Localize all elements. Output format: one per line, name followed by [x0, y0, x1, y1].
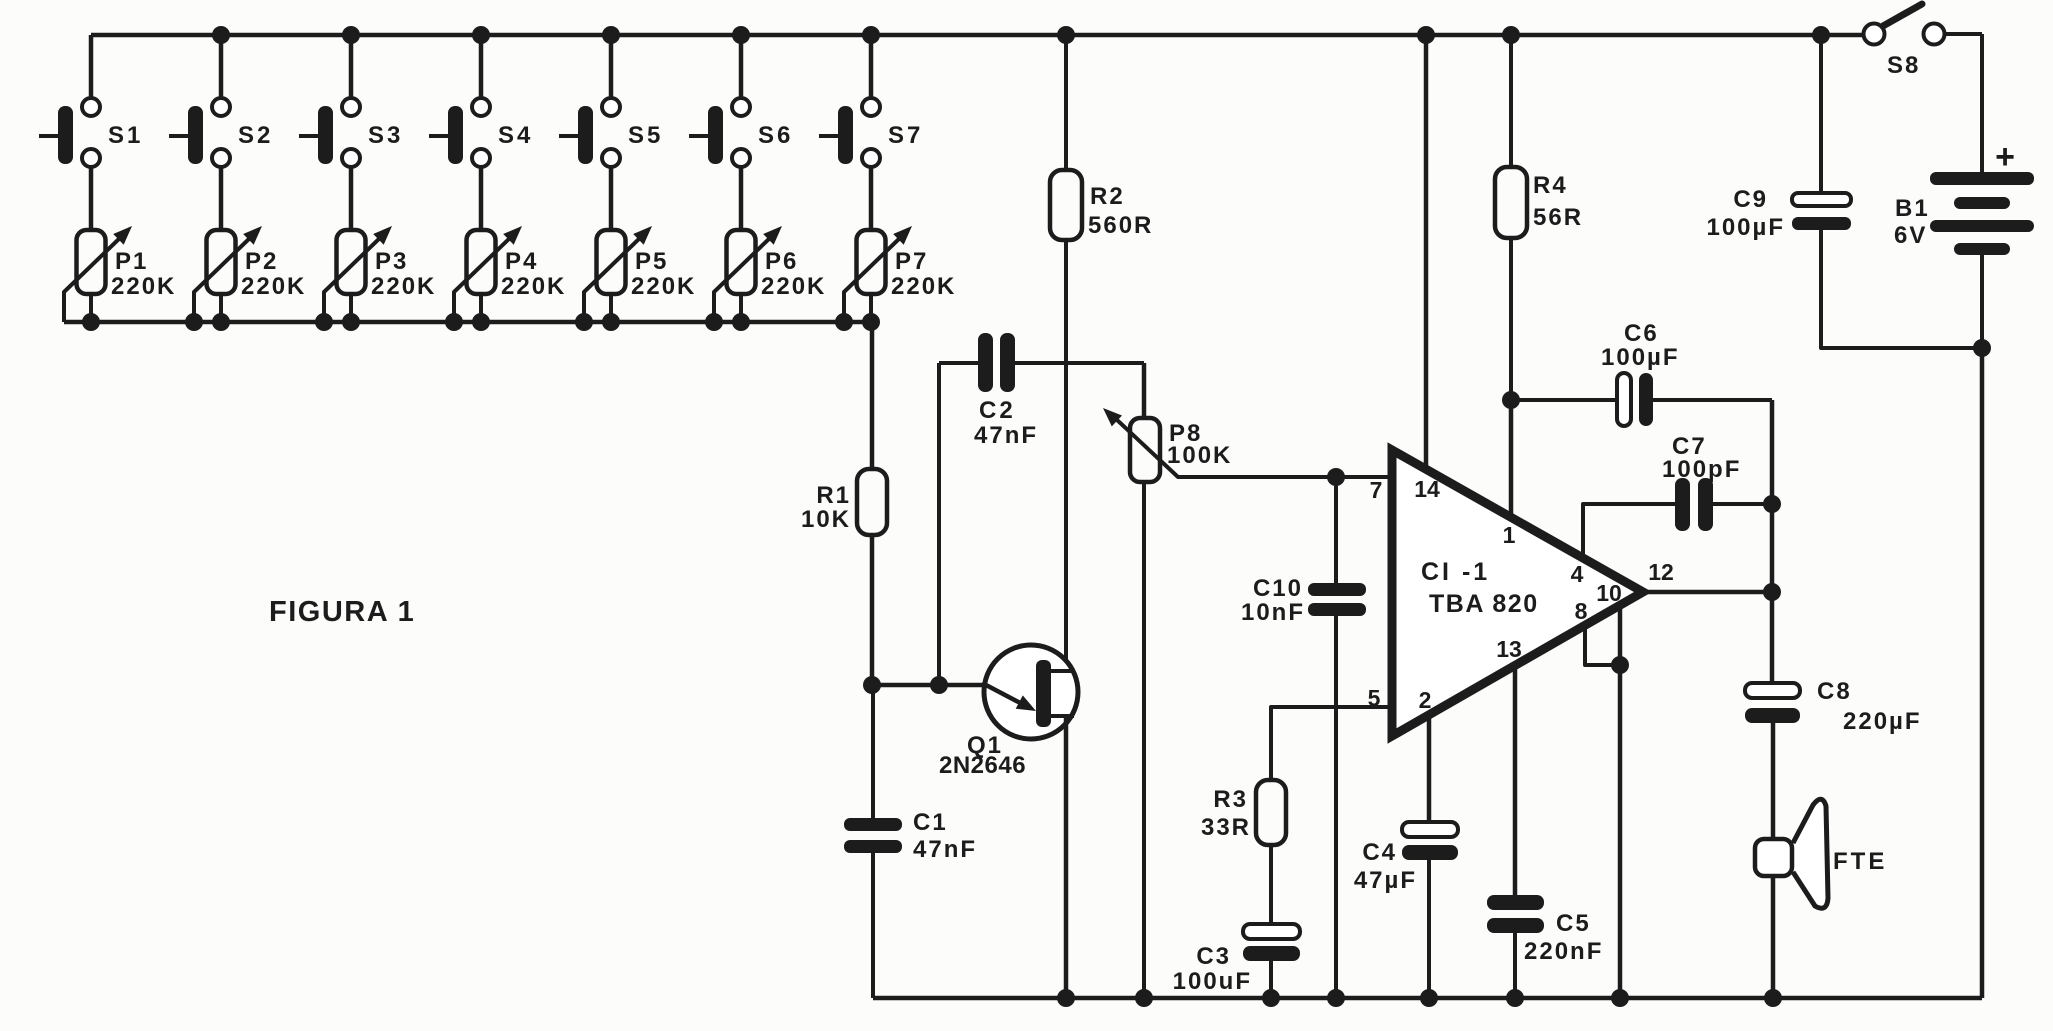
potentiometer P6 220K	[714, 226, 826, 322]
svg-text:1: 1	[1503, 522, 1516, 548]
wire switch S2 top lead	[219, 35, 224, 99]
wire switch S1 top lead	[89, 35, 94, 99]
wire feedback column	[1770, 400, 1775, 683]
switch S4	[429, 98, 533, 167]
svg-text:10nF: 10nF	[1241, 599, 1305, 626]
wire battery to bottom right corner	[1980, 348, 1985, 998]
switch S3	[299, 98, 403, 167]
svg-text:6V: 6V	[1894, 222, 1927, 249]
node speaker ground junction	[1764, 989, 1782, 1007]
capacitor C7 100pF	[1662, 433, 1772, 531]
potentiometer P8 100K	[1103, 408, 1392, 998]
svg-text:2N2646: 2N2646	[939, 752, 1026, 779]
pin 8 label	[1575, 598, 1588, 624]
svg-text:100uF: 100uF	[1173, 968, 1252, 995]
wire switch S5 top lead	[609, 35, 614, 99]
svg-text:10K: 10K	[801, 506, 851, 533]
node R4/C6/pin1 junction	[1502, 391, 1520, 409]
switch S6	[689, 98, 793, 167]
wire switch S6 top lead	[739, 35, 744, 99]
capacitor C1 47nF	[844, 685, 977, 998]
node top rail junction 5	[602, 26, 620, 44]
wire switch S7 top lead	[869, 35, 874, 99]
svg-text:47µF: 47µF	[1354, 867, 1417, 894]
potentiometer P7 220K	[844, 226, 956, 322]
wire speaker to ground	[1771, 876, 1776, 998]
switch S8	[1864, 4, 1983, 79]
svg-text:R2: R2	[1090, 183, 1125, 210]
wire pin 13 to C5	[1513, 666, 1518, 895]
svg-text:P2: P2	[245, 248, 278, 275]
svg-text:S5: S5	[628, 122, 663, 149]
svg-text:56R: 56R	[1533, 204, 1583, 231]
svg-text:220K: 220K	[631, 273, 696, 300]
pin 10 label	[1596, 580, 1622, 606]
svg-text:220K: 220K	[241, 273, 306, 300]
wire S7 to P7	[869, 168, 874, 230]
node Q1 ground junction	[1057, 989, 1075, 1007]
wire pin8 node to ground	[1618, 665, 1623, 998]
capacitor C6 100uF	[1511, 320, 1772, 426]
svg-text:P7: P7	[895, 248, 928, 275]
node P4 wiper junction	[445, 313, 463, 331]
node R1/C1 junction	[863, 676, 881, 694]
wire C8 to speaker	[1771, 723, 1776, 839]
node C2 junction	[930, 676, 948, 694]
battery B1 6V	[1894, 34, 2034, 348]
wire bottom ground rail	[873, 996, 1982, 1001]
node P5 wiper junction	[575, 313, 593, 331]
wire pin 1	[1509, 400, 1514, 518]
svg-text:C6: C6	[1624, 320, 1659, 347]
svg-text:C1: C1	[913, 809, 948, 836]
switch S7	[819, 98, 923, 167]
svg-text:S7: S7	[888, 122, 923, 149]
node C5 ground junction	[1506, 989, 1524, 1007]
wire switch S3 top lead	[349, 35, 354, 99]
node pin12 junction	[1763, 583, 1781, 601]
svg-text:560R: 560R	[1088, 212, 1153, 239]
potentiometer P2 220K	[194, 226, 306, 322]
node figure caption	[269, 596, 415, 628]
switch S1	[39, 98, 143, 167]
node C4 ground junction	[1420, 989, 1438, 1007]
transistor Q1 2N2646	[939, 645, 1078, 779]
wire Q1 base1 to ground rail	[1064, 716, 1069, 998]
op-amp U1 CI-1 TBA820	[1392, 450, 1643, 736]
svg-text:100µF: 100µF	[1601, 344, 1680, 371]
svg-text:13: 13	[1496, 636, 1522, 662]
wire pin 14 supply	[1424, 35, 1429, 470]
potentiometer P4 220K	[454, 226, 566, 322]
pin 13 label	[1496, 636, 1522, 662]
svg-text:2: 2	[1419, 687, 1432, 713]
wire pin 10 stub	[1618, 603, 1623, 665]
node P4 bottom junction	[472, 313, 490, 331]
resistor R2 560R	[1050, 35, 1153, 672]
svg-text:R3: R3	[1213, 786, 1248, 813]
pin 7 label	[1370, 477, 1383, 503]
node C10 tap junction	[1327, 468, 1345, 486]
svg-text:8: 8	[1575, 598, 1588, 624]
svg-text:P4: P4	[505, 248, 538, 275]
node top rail junction 3	[342, 26, 360, 44]
pin 4 label	[1571, 561, 1584, 587]
node P6 wiper junction	[705, 313, 723, 331]
svg-text:47nF: 47nF	[974, 422, 1038, 449]
svg-text:S3: S3	[368, 122, 403, 149]
svg-text:4: 4	[1571, 561, 1584, 587]
svg-text:+: +	[1995, 138, 2015, 176]
node P2 bottom junction	[212, 313, 230, 331]
node pin8/10 junction	[1611, 656, 1629, 674]
svg-text:C2: C2	[979, 397, 1016, 424]
wire switch S4 top lead	[479, 35, 484, 99]
wire pin 12 output	[1643, 590, 1772, 595]
wire pin 4 stub	[1583, 504, 1675, 558]
speaker FTE	[1755, 799, 1887, 908]
svg-text:FIGURA 1: FIGURA 1	[269, 596, 415, 628]
node P7 wiper junction	[835, 313, 853, 331]
node top rail junction 6	[732, 26, 750, 44]
wire top supply rail	[91, 33, 1863, 38]
capacitor C2 47nF	[939, 333, 1144, 685]
svg-text:FTE: FTE	[1833, 848, 1887, 875]
wire pin 8 stub	[1585, 626, 1620, 665]
switch S5	[559, 98, 663, 167]
svg-text:C5: C5	[1556, 910, 1591, 937]
potentiometer P1 220K	[64, 226, 176, 322]
potentiometer P3 220K	[324, 226, 436, 322]
wire S1 to P1	[89, 168, 94, 230]
svg-text:220K: 220K	[501, 273, 566, 300]
wire S6 to P6	[739, 168, 744, 230]
switch S2	[169, 98, 273, 167]
svg-text:C10: C10	[1253, 575, 1303, 602]
resistor R4 56R	[1495, 35, 1583, 400]
resistor R1 10K	[801, 469, 887, 535]
potentiometer P5 220K	[584, 226, 696, 322]
svg-text:33R: 33R	[1201, 814, 1251, 841]
wire pin 2 to C4	[1427, 716, 1432, 822]
svg-text:R4: R4	[1533, 172, 1568, 199]
svg-text:C4: C4	[1362, 839, 1397, 866]
svg-text:220µF: 220µF	[1843, 708, 1922, 735]
resistor R3 33R	[1201, 780, 1286, 924]
node top rail junction 4	[472, 26, 490, 44]
svg-text:14: 14	[1414, 476, 1440, 502]
svg-text:CI -1: CI -1	[1421, 558, 1490, 586]
svg-text:220nF: 220nF	[1524, 938, 1603, 965]
svg-text:100K: 100K	[1167, 442, 1232, 469]
svg-text:P1: P1	[115, 248, 148, 275]
svg-text:12: 12	[1648, 559, 1674, 585]
svg-text:100µF: 100µF	[1706, 214, 1785, 241]
svg-text:220K: 220K	[891, 273, 956, 300]
node P8 ground junction	[1135, 989, 1153, 1007]
wire S4 to P4	[479, 168, 484, 230]
node P3 wiper junction	[315, 313, 333, 331]
node P5 bottom junction	[602, 313, 620, 331]
capacitor C5 220nF	[1487, 895, 1603, 998]
node R4 top junction	[1502, 26, 1520, 44]
wire pin 5 to R3	[1271, 707, 1392, 780]
node P7 bottom junction	[862, 313, 880, 331]
svg-text:C3: C3	[1196, 943, 1231, 970]
node P3 bottom junction	[342, 313, 360, 331]
wire S3 to P3	[349, 168, 354, 230]
capacitor C3 100uF	[1173, 924, 1300, 998]
svg-text:B1: B1	[1895, 195, 1930, 222]
svg-text:S4: S4	[498, 122, 533, 149]
wire R1 to emitter node	[870, 535, 875, 685]
wire switch-bank bottom rail	[64, 320, 871, 325]
wire P7 rail to R1	[870, 322, 875, 469]
capacitor C8 220uF	[1745, 678, 1922, 735]
pin 14 label	[1414, 476, 1440, 502]
svg-text:100pF: 100pF	[1662, 456, 1741, 483]
node top rail junction 7	[862, 26, 880, 44]
pin 5 label	[1368, 685, 1381, 711]
svg-text:P3: P3	[375, 248, 408, 275]
node P6 bottom junction	[732, 313, 750, 331]
pin 12 label	[1648, 559, 1674, 585]
svg-text:S1: S1	[108, 122, 143, 149]
pin 1 label	[1503, 522, 1516, 548]
wire emitter node horizontal	[872, 683, 986, 688]
wire S5 to P5	[609, 168, 614, 230]
wire S2 to P2	[219, 168, 224, 230]
svg-text:P5: P5	[635, 248, 668, 275]
svg-text:220K: 220K	[761, 273, 826, 300]
wire C2 to P8	[1142, 363, 1147, 418]
svg-text:R1: R1	[816, 482, 851, 509]
node C3 ground junction	[1262, 989, 1280, 1007]
svg-text:C9: C9	[1733, 186, 1768, 213]
svg-text:220K: 220K	[371, 273, 436, 300]
svg-text:220K: 220K	[111, 273, 176, 300]
node pin8 ground junction	[1611, 989, 1629, 1007]
svg-text:C8: C8	[1817, 678, 1852, 705]
node R2 top junction	[1057, 26, 1075, 44]
svg-text:S6: S6	[758, 122, 793, 149]
node C10 ground junction	[1327, 989, 1345, 1007]
node C9 top junction	[1812, 26, 1830, 44]
capacitor C4 47uF	[1354, 822, 1458, 998]
svg-text:7: 7	[1370, 477, 1383, 503]
svg-text:S2: S2	[238, 122, 273, 149]
svg-text:TBA 820: TBA 820	[1429, 590, 1539, 618]
svg-text:10: 10	[1596, 580, 1622, 606]
node P2 wiper junction	[185, 313, 203, 331]
svg-text:P6: P6	[765, 248, 798, 275]
capacitor C10 10nF	[1241, 477, 1366, 998]
pin 2 label	[1419, 687, 1432, 713]
capacitor C9 100uF	[1706, 35, 1982, 348]
svg-text:47nF: 47nF	[913, 836, 977, 863]
node pin14 top junction	[1417, 26, 1435, 44]
node C7 junction	[1763, 495, 1781, 513]
node P1 bottom junction	[82, 313, 100, 331]
node C9/B1 junction	[1973, 339, 1991, 357]
svg-text:S8: S8	[1887, 52, 1920, 79]
node top rail junction 2	[212, 26, 230, 44]
